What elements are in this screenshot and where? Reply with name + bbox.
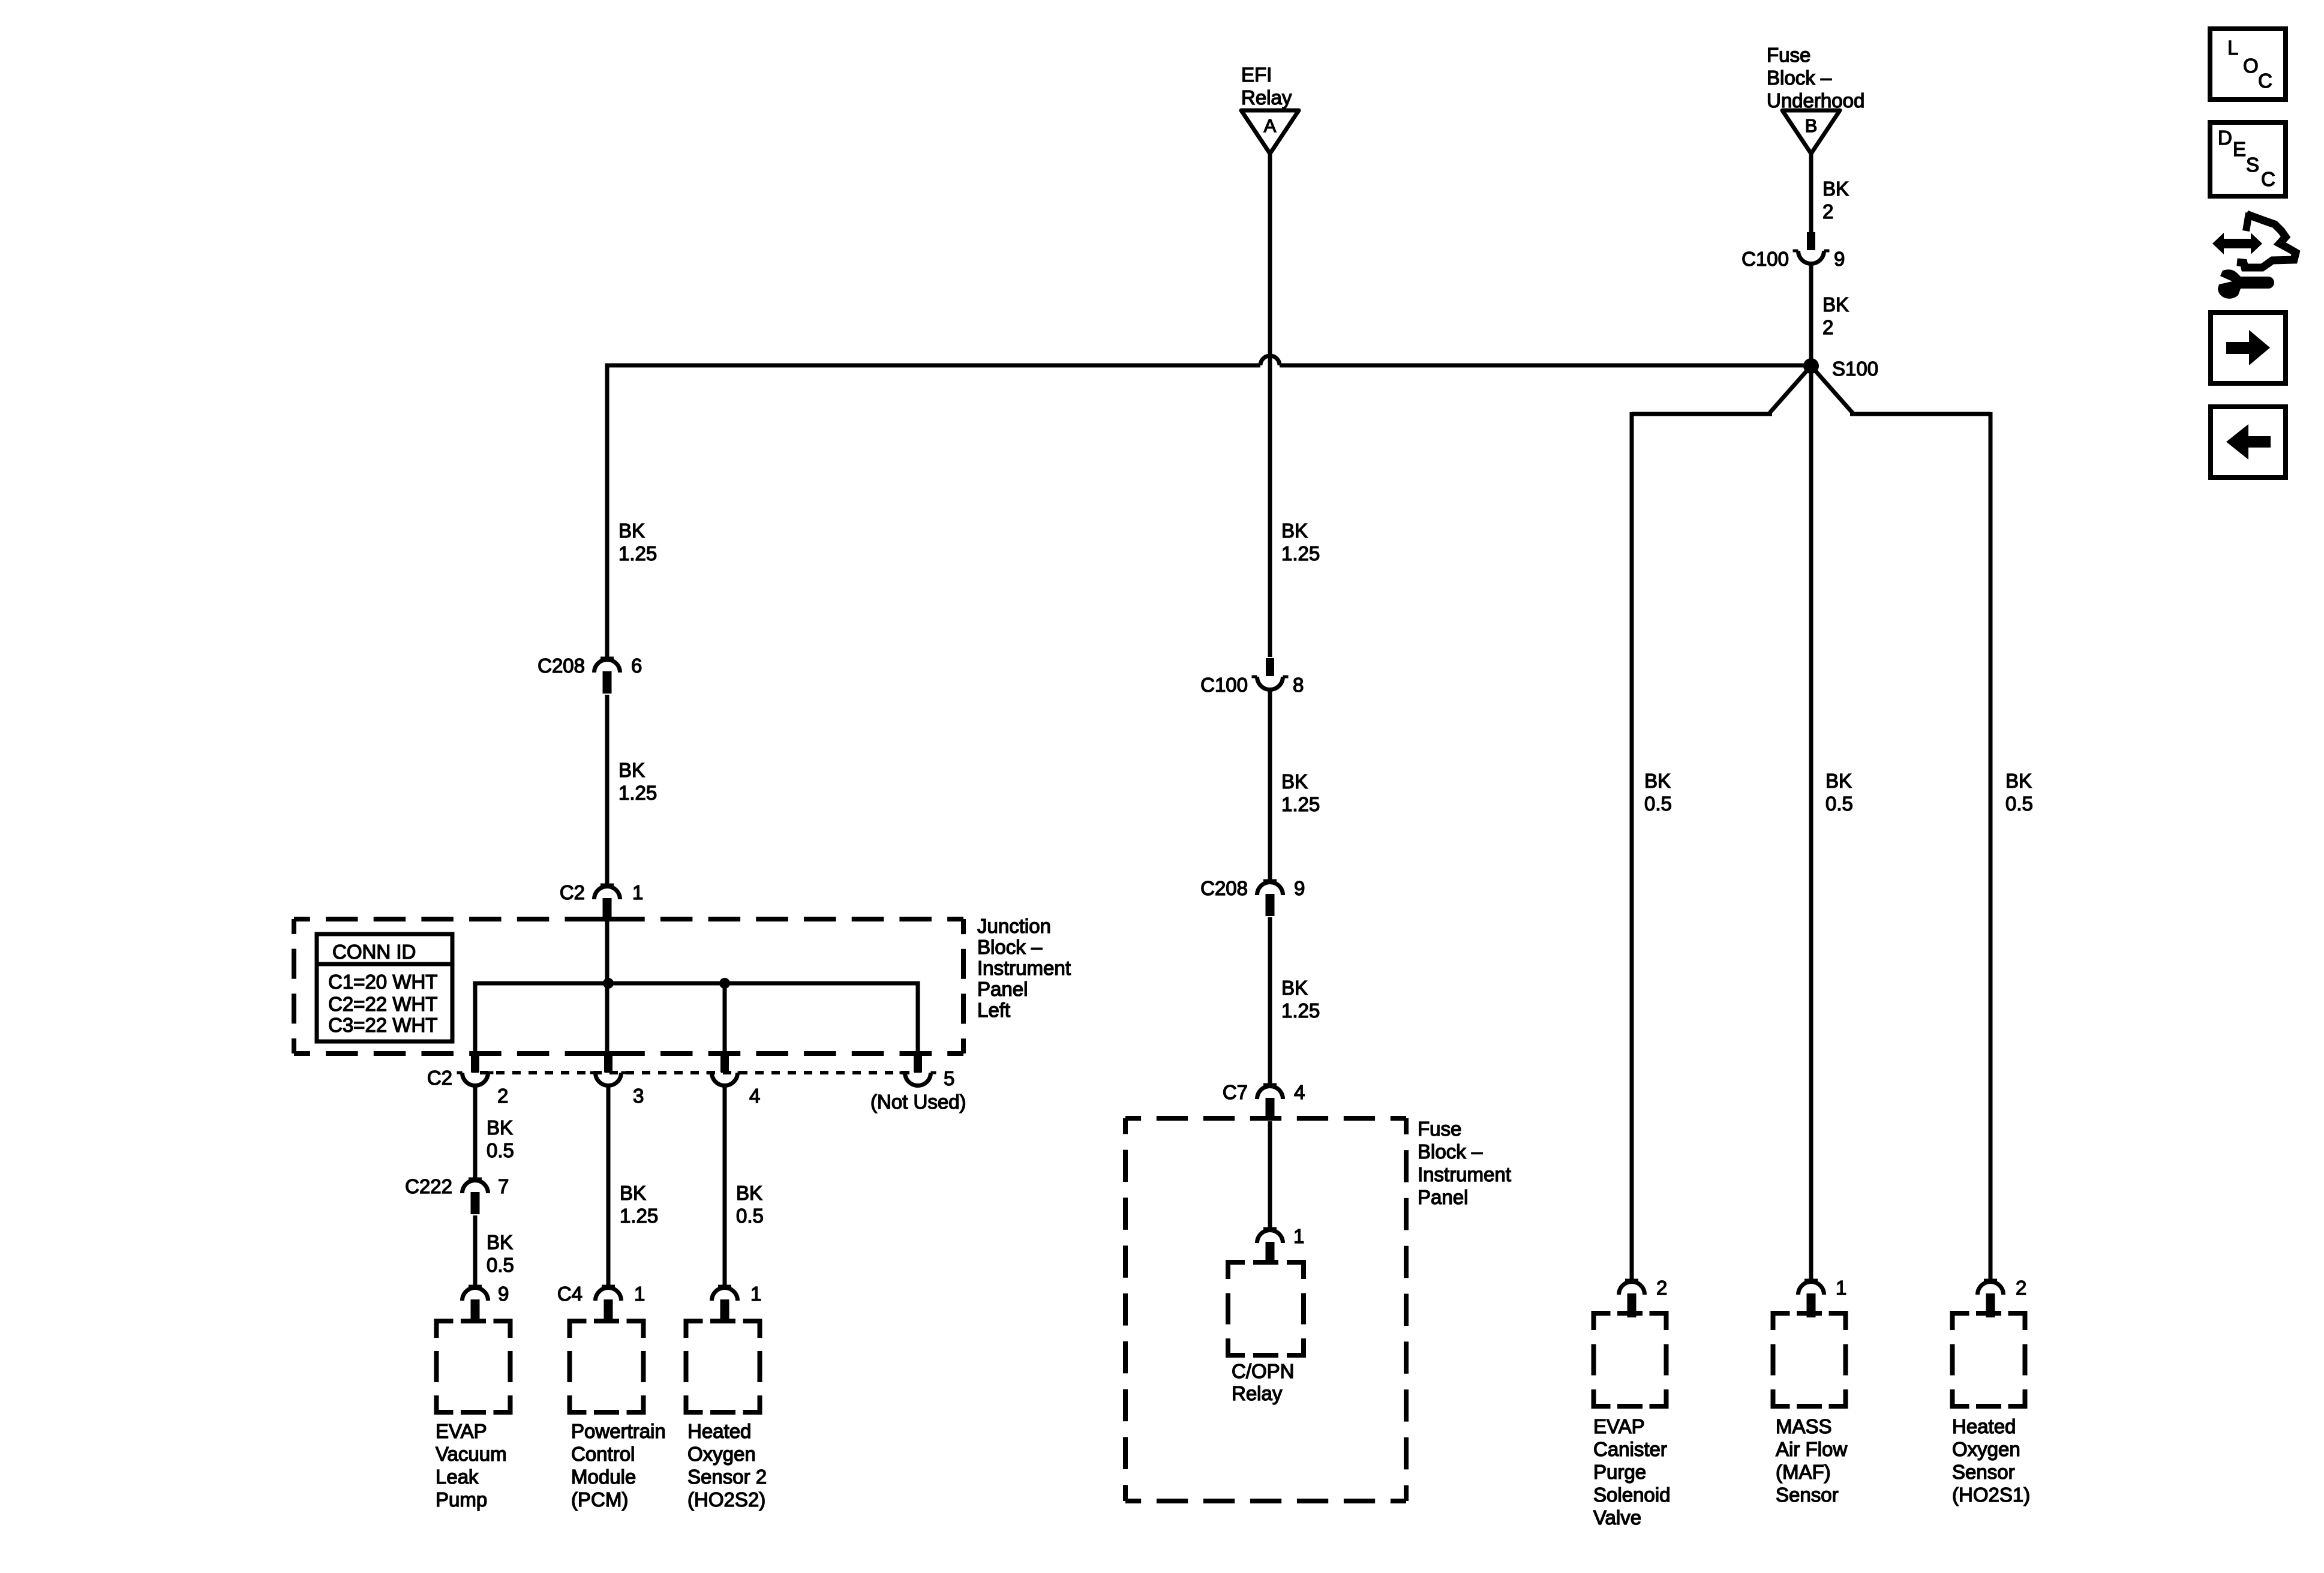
icon box arrow right (2211, 313, 2286, 383)
svg-text:9: 9 (498, 1283, 509, 1305)
wire stub to HO2S1 column (1850, 412, 1990, 416)
wire bus corner down to C208-6 (605, 364, 609, 658)
svg-text:C3=22 WHT: C3=22 WHT (328, 1014, 437, 1036)
junction box top edge dash at C2-1 crossing (591, 917, 624, 921)
connector C2 pin 5 male bar (914, 1058, 922, 1073)
svg-text:0.5: 0.5 (487, 1254, 514, 1276)
icon arrow right (2226, 330, 2270, 365)
wire stub to EVAP canister column (1632, 412, 1772, 416)
connector pin 2 HO2S1 (1978, 1279, 2004, 1318)
wire C2-2 to C222-7 (473, 1084, 478, 1178)
svg-text:BK: BK (618, 520, 645, 542)
svg-text:8: 8 (1293, 674, 1304, 696)
svg-text:C1=20 WHT: C1=20 WHT (328, 971, 437, 993)
svg-text:BK: BK (2005, 770, 2032, 792)
wire junction block internal bus (475, 981, 918, 986)
svg-text:L: L (2227, 37, 2238, 59)
svg-text:0.5: 0.5 (1825, 792, 1853, 815)
junction dot at pin 4 branch (719, 978, 730, 989)
dashed box Powertrain Control Module (570, 1321, 644, 1412)
svg-text:BK: BK (736, 1182, 762, 1204)
wire triangle B to C100-9 (1809, 154, 1813, 233)
connector pin 9 EVAP vacuum leak pump (463, 1285, 488, 1324)
svg-text:BK: BK (618, 759, 645, 781)
connector C100 pin 8 (1252, 658, 1289, 690)
wire S100 diagonal right (1811, 366, 1852, 413)
svg-text:BK: BK (1281, 977, 1308, 999)
wire hop over EFI wire (1260, 356, 1280, 365)
svg-text:HeatedOxygenSensor(HO2S1): HeatedOxygenSensor(HO2S1) (1952, 1415, 2030, 1506)
svg-text:C222: C222 (405, 1175, 452, 1197)
dashed box Junction Block - Instrument Panel Left (294, 919, 963, 1053)
icon arrow left (2226, 424, 2271, 460)
svg-text:1.25: 1.25 (1281, 542, 1320, 565)
svg-text:Block –: Block – (1418, 1140, 1483, 1163)
svg-text:C2=22 WHT: C2=22 WHT (328, 993, 437, 1015)
svg-text:Underhood: Underhood (1767, 89, 1864, 112)
svg-text:2: 2 (2016, 1277, 2026, 1299)
svg-text:BK: BK (1825, 770, 1852, 792)
wire C7-4 to C/OPN relay pin 1 (1268, 1121, 1272, 1227)
connector C222 pin 7 (463, 1178, 488, 1215)
svg-text:Block –: Block – (1767, 67, 1832, 89)
svg-text:3: 3 (633, 1085, 644, 1107)
svg-text:JunctionBlock –InstrumentPanel: JunctionBlock –InstrumentPanelLeft (977, 915, 1071, 1021)
svg-text:C7: C7 (1223, 1081, 1248, 1103)
svg-text:HeatedOxygenSensor 2(HO2S2): HeatedOxygenSensor 2(HO2S2) (687, 1420, 767, 1511)
svg-text:7: 7 (498, 1175, 509, 1197)
svg-text:BK: BK (1644, 770, 1671, 792)
svg-text:4: 4 (749, 1085, 760, 1107)
svg-text:BK: BK (1281, 520, 1308, 542)
svg-text:Panel: Panel (1418, 1186, 1468, 1208)
svg-text:1.25: 1.25 (1281, 999, 1320, 1022)
wire C2-4 to HO2S2 pin 1 (723, 1084, 727, 1285)
svg-text:6: 6 (631, 655, 642, 677)
connector C2 pin 4 cup (707, 1054, 743, 1086)
svg-text:E: E (2233, 138, 2246, 160)
svg-text:5: 5 (944, 1067, 954, 1089)
dashed box Heated Oxygen Sensor 2 (686, 1321, 760, 1412)
svg-text:S: S (2246, 154, 2259, 176)
svg-text:C: C (2258, 70, 2272, 92)
svg-text:BK: BK (487, 1231, 513, 1253)
svg-text:Relay: Relay (1241, 86, 1292, 109)
svg-text:2: 2 (1822, 200, 1833, 223)
svg-text:C4: C4 (557, 1283, 582, 1305)
connector C7 pin 4 (1257, 1083, 1283, 1121)
dashed box Fuse Block - Instrument Panel (1125, 1118, 1406, 1501)
connector C2 pin 3 male bar (605, 1058, 612, 1073)
dashed box EVAP Canister Purge Solenoid Valve (1594, 1313, 1667, 1406)
connector C2 pin 3 cup (590, 1054, 627, 1086)
dashed box MASS Air Flow Sensor (1773, 1313, 1846, 1406)
svg-text:0.5: 0.5 (2005, 792, 2033, 815)
icon body-repair wrench (2218, 269, 2274, 299)
connector pin 2 EVAP canister purge solenoid valve (1619, 1279, 1645, 1318)
wire C222-7 to pin 9 (473, 1215, 478, 1285)
svg-text:C2: C2 (560, 881, 585, 903)
connector C2 pin 5 cup (900, 1054, 936, 1086)
svg-text:EVAPVacuumLeakPump: EVAPVacuumLeakPump (436, 1420, 507, 1511)
wire S100 to MAF sensor (1809, 366, 1813, 1279)
svg-text:BK: BK (1822, 178, 1849, 200)
wire bus left segment (605, 364, 1261, 368)
connector C2 pin 2 cup (457, 1054, 494, 1086)
wire C208-6 to C2-1 (605, 695, 609, 884)
svg-text:A: A (1264, 115, 1277, 136)
svg-text:1: 1 (1293, 1225, 1304, 1247)
svg-text:C: C (2261, 168, 2275, 190)
svg-text:BK: BK (1822, 293, 1849, 316)
dotted connector row line C2 (480, 1071, 912, 1074)
svg-text:4: 4 (1294, 1081, 1305, 1103)
svg-text:EFI: EFI (1241, 64, 1272, 86)
svg-text:1: 1 (1836, 1277, 1846, 1299)
svg-text:Fuse: Fuse (1418, 1118, 1461, 1140)
icon box DESC (2210, 122, 2286, 196)
wire S100 diagonal left (1770, 366, 1811, 413)
svg-text:0.5: 0.5 (736, 1205, 764, 1227)
svg-text:2: 2 (497, 1085, 508, 1107)
junction box bottom edge dash at pin 3 crossing (592, 1051, 625, 1056)
dashed box EVAP Vacuum Leak Pump (437, 1321, 511, 1412)
svg-text:D: D (2218, 127, 2232, 149)
svg-text:BK: BK (620, 1182, 646, 1204)
svg-text:C208: C208 (1200, 877, 1248, 899)
connector C100 pin 9 (1793, 232, 1830, 264)
junction dot at pin 3 branch (603, 978, 614, 989)
wire C208-9 to C7-4 (1268, 917, 1272, 1083)
svg-text:(Not Used): (Not Used) (870, 1091, 966, 1113)
svg-text:Relay: Relay (1232, 1382, 1283, 1404)
wire internal bus down to pin 5 (916, 981, 920, 1058)
svg-text:1: 1 (632, 881, 643, 903)
svg-text:9: 9 (1834, 248, 1845, 270)
svg-text:C2: C2 (427, 1067, 452, 1089)
svg-text:Fuse: Fuse (1767, 44, 1810, 66)
wire to HO2S1 (1989, 412, 1993, 1279)
svg-text:B: B (1805, 115, 1818, 136)
svg-text:EVAPCanisterPurgeSolenoidValve: EVAPCanisterPurgeSolenoidValve (1593, 1415, 1670, 1529)
svg-text:Instrument: Instrument (1418, 1163, 1511, 1185)
connector pin 1 HO2S2 (712, 1285, 738, 1324)
splice S100 (1803, 358, 1819, 374)
wire C2-1 through junction block to pin 3 (605, 921, 609, 1058)
svg-text:1.25: 1.25 (1281, 793, 1320, 815)
wire bus right segment (1280, 364, 1811, 368)
connector C208 pin 9 (1257, 879, 1283, 917)
svg-text:BK: BK (487, 1116, 513, 1139)
svg-text:1: 1 (750, 1283, 761, 1305)
off-page triangle A (EFI Relay) (1241, 110, 1299, 154)
icon box arrow left (2211, 407, 2286, 478)
connector C2 pin 1 (594, 884, 620, 921)
icon body-repair hood outline (2246, 213, 2249, 231)
CONN ID table (317, 934, 452, 1041)
svg-text:C100: C100 (1200, 674, 1248, 696)
connector C/OPN relay pin 1 (1257, 1227, 1283, 1263)
svg-text:C/OPN: C/OPN (1232, 1360, 1295, 1382)
svg-text:1.25: 1.25 (620, 1205, 658, 1227)
icon box LOC (2210, 29, 2286, 100)
wire internal bus down to pin 2 (473, 981, 478, 1058)
svg-text:9: 9 (1294, 877, 1305, 899)
svg-text:0.5: 0.5 (1644, 792, 1672, 815)
off-page triangle B (Fuse Block Underhood) (1782, 110, 1840, 154)
svg-text:2: 2 (1656, 1277, 1667, 1299)
svg-text:1.25: 1.25 (618, 782, 657, 804)
connector pin 1 MAF sensor (1798, 1279, 1824, 1318)
svg-text:PowertrainControlModule(PCM): PowertrainControlModule(PCM) (571, 1420, 666, 1511)
connector C2 pin 2 male bar (472, 1058, 479, 1073)
svg-text:C208: C208 (538, 655, 585, 677)
icon body-repair double arrow (2212, 233, 2262, 254)
connector C208 pin 6 (594, 657, 620, 694)
wire EFI relay down through hop to C100-8 (1268, 154, 1272, 657)
svg-text:S100: S100 (1832, 358, 1878, 380)
svg-text:BK: BK (1281, 770, 1308, 792)
svg-text:0.5: 0.5 (487, 1139, 514, 1161)
connector C2 pin 4 male bar (721, 1058, 729, 1073)
svg-text:MASSAir Flow(MAF)Sensor: MASSAir Flow(MAF)Sensor (1776, 1415, 1847, 1506)
svg-text:O: O (2243, 55, 2259, 77)
wire C100-9 to S100 (1809, 263, 1813, 366)
dashed box Heated Oxygen Sensor HO2S1 (1953, 1313, 2025, 1406)
wire C2-3 to C4-1 (606, 1084, 611, 1285)
wire internal bus down to pin 4 (723, 983, 727, 1058)
svg-text:CONN ID: CONN ID (332, 941, 416, 963)
svg-text:1: 1 (634, 1283, 645, 1305)
connector C4 pin 1 (596, 1285, 621, 1324)
svg-text:1.25: 1.25 (618, 542, 657, 565)
svg-text:2: 2 (1822, 316, 1833, 338)
wire C100-8 to C208-9 (1268, 689, 1272, 879)
svg-text:C100: C100 (1742, 248, 1789, 270)
dashed box C/OPN Relay (1228, 1262, 1304, 1355)
wire to EVAP canister purge solenoid valve (1630, 412, 1634, 1279)
